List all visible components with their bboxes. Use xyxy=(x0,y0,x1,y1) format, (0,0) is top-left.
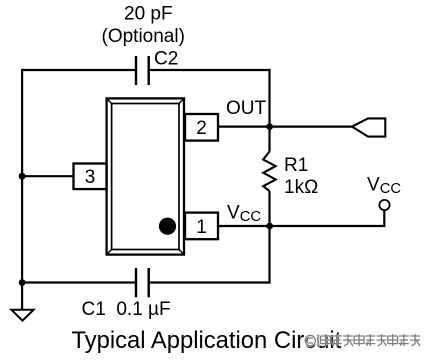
svg-text:20 pF: 20 pF xyxy=(124,4,173,25)
svg-text:2: 2 xyxy=(196,118,207,139)
svg-text:(Optional): (Optional) xyxy=(102,26,185,47)
svg-text:3: 3 xyxy=(85,167,96,188)
svg-text:OUT: OUT xyxy=(226,98,267,119)
svg-text:C2: C2 xyxy=(154,49,178,70)
svg-text:VCC: VCC xyxy=(227,202,261,225)
svg-text:1kΩ: 1kΩ xyxy=(284,177,318,198)
svg-text:VCC: VCC xyxy=(367,174,401,197)
svg-text:Typical Application Circuit: Typical Application Circuit xyxy=(72,327,342,354)
svg-text:C1 0.1 µF: C1 0.1 µF xyxy=(82,299,171,320)
svg-text:R1: R1 xyxy=(284,155,308,176)
svg-text:1: 1 xyxy=(196,217,207,238)
